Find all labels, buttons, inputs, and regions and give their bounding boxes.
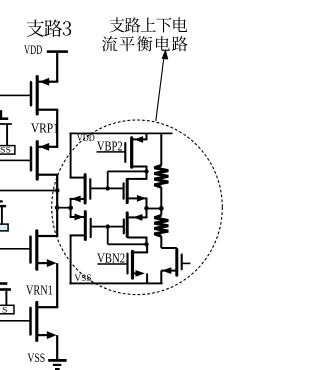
svg-text:VSS: VSS [27, 351, 45, 365]
transistor Q4 source terminal [37, 334, 49, 336]
transistor M4 gate bar [90, 219, 92, 237]
transistor Q1 source arrow (PMOS) [39, 78, 49, 86]
wire Q1 to Q2 [56, 110, 58, 147]
partial symbol 2: terminal bar [0, 205, 6, 207]
wire R2 to M6 [160, 236, 162, 248]
dashed circle (balance circuit highlight) [52, 120, 223, 295]
transistor M3 source arrow [137, 195, 146, 202]
partial symbol 2: arrow stub [0, 200, 3, 202]
transistor M2 source terminal [70, 198, 86, 200]
gate bus wire M4-M7 [91, 226, 124, 228]
wire left at node A [0, 190, 57, 192]
wire M5 drain up to E [146, 244, 148, 252]
transistor M6 source arrow [162, 267, 171, 274]
partial symbol 2: wire down [1, 206, 3, 224]
transistor Q2 gate bar [30, 147, 33, 170]
partial label box SS [0, 146, 15, 155]
transistor Q4 drain terminal [37, 306, 59, 308]
transistor M3 drain terminal [127, 178, 147, 180]
wire M6 source to VSS rail [160, 271, 162, 284]
wire node B to balance box [57, 207, 70, 209]
wire gates-to-E horizontal [108, 243, 147, 245]
transistor M6 gate lead stub [183, 263, 191, 265]
annotation text line2 流平衡电路 [102, 36, 188, 51]
transistor Q2 gate lead wire [0, 160, 31, 162]
wire Q3 to Q4 [56, 263, 58, 307]
box VSS rail [69, 282, 162, 284]
box VDD rail [69, 133, 172, 135]
wire M5 source to VSS rail [146, 273, 148, 283]
wire VDD to Q1 drain [56, 53, 58, 82]
transistor M5 channel bar [131, 252, 134, 279]
resistor junction dot [159, 206, 164, 211]
transistor Q1 source terminal [37, 109, 58, 111]
partial label box S [0, 305, 14, 314]
transistor M6 source terminal [161, 270, 177, 272]
transistor Q1 gate lead wire [0, 95, 31, 97]
node dot C [144, 206, 149, 211]
transistor M2 source arrow [71, 196, 80, 203]
partial symbol: source bar [0, 117, 8, 120]
wire Q2 to node A [56, 175, 58, 236]
partial symbol 3: wire down [5, 291, 7, 306]
transistor M1 gate lead (VBP2 net) [97, 151, 125, 153]
wire Q4 to ground [56, 335, 58, 359]
transistor M5 drain terminal [133, 251, 149, 253]
wire M3-M7 vertical [146, 198, 148, 217]
transistor Q1 gate bar [30, 82, 33, 105]
box left wire segment 3 [70, 235, 72, 285]
svg-text:VSS: VSS [74, 274, 91, 284]
partial symbol: terminal line [0, 123, 12, 125]
transistor M3 source terminal [127, 197, 147, 199]
transistor Q2 source terminal [37, 174, 58, 176]
wire gates-to-E vertical [107, 227, 109, 245]
node C junction dot on box edge [68, 205, 73, 210]
node dot B [144, 169, 148, 173]
transistor M2 drain terminal [70, 177, 86, 179]
node dot D (gate bus) [106, 224, 110, 228]
transistor M2 gate bar [89, 179, 91, 199]
transistor Q1 channel bar [36, 77, 39, 114]
VDD T-bar [47, 50, 68, 53]
wire R1 to junction [160, 187, 162, 208]
transistor M2 channel bar [84, 175, 87, 203]
transistor Q3 channel bar [35, 231, 38, 269]
transistor Q2 drain terminal [37, 146, 58, 148]
transistor M7 gate bar [123, 219, 125, 233]
transistor M1 gate bar [124, 143, 126, 162]
transistor M4 source terminal [70, 216, 86, 218]
wire gates-to-B vertical [107, 171, 109, 188]
transistor M7 drain terminal [127, 237, 147, 239]
wire M1 drain down [146, 167, 148, 179]
transistor Q3 source terminal [37, 262, 49, 264]
box left wire segment 2 [70, 199, 72, 218]
box left wire segment 1 [70, 133, 72, 179]
transistor Q3 gate bar [29, 237, 32, 263]
node dot A (gate bus) [106, 186, 110, 190]
transistor Q3 drain terminal [37, 235, 59, 237]
node dot E [144, 242, 148, 246]
wire C to resistor junction [147, 208, 162, 210]
wire M7 drain down [146, 238, 148, 245]
transistor M7 channel bar [126, 213, 129, 237]
transistor M3 channel bar [126, 179, 129, 202]
wire gates-to-B horizontal [108, 171, 147, 173]
title text 支路3 [27, 19, 72, 36]
transistor M4 channel bar [84, 212, 87, 240]
transistor Q4 source arrow (NMOS) [47, 331, 57, 339]
transistor M7 source arrow [133, 214, 142, 221]
wire VDD rail to R1 [160, 134, 162, 165]
transistor M4 source arrow [75, 214, 84, 221]
transistor M5 gate lead (VBN2 net) [97, 263, 126, 265]
transistor Q1 drain terminal [37, 81, 58, 83]
resistor R2 [154, 215, 168, 236]
transistor Q3 source arrow (NMOS) [47, 259, 57, 267]
transistor Q4 gate lead wire [0, 320, 30, 322]
transistor M6 channel bar [175, 249, 178, 275]
transistor M1 wire to VDD rail [146, 133, 148, 139]
transistor M4 drain terminal [70, 234, 86, 236]
transistor M1 source arrow (PMOS) [134, 136, 143, 143]
transistor Q4 gate bar [29, 308, 32, 335]
annotation text line1 支路上下电 [109, 17, 187, 32]
transistor M6 drain terminal [161, 247, 177, 249]
annotation leader arrow [156, 49, 169, 121]
transistor M5 gate bar [126, 254, 128, 274]
resistor R1 [154, 165, 168, 187]
svg-text:VRN1: VRN1 [26, 282, 53, 297]
transistor Q2 source arrow (PMOS) [39, 143, 49, 151]
partial symbol 2: label box [0, 224, 8, 231]
transistor M5 source arrow (NMOS) [136, 270, 145, 277]
transistor M3 gate bar [123, 183, 125, 199]
ground symbol [48, 359, 66, 370]
transistor Q3 gate lead wire [0, 248, 30, 250]
svg-text:S: S [2, 304, 8, 314]
wire junction to R2 [160, 209, 162, 216]
transistor M1 source terminal [132, 138, 148, 140]
transistor Q4 channel bar [35, 302, 38, 340]
partial symbol 3: terminal bar [0, 282, 7, 285]
transistor M5 source terminal [133, 272, 141, 274]
transistor M7 source terminal [127, 216, 147, 218]
transistor M1 drain terminal [132, 166, 148, 168]
node B junction dot [55, 205, 60, 210]
partial symbol 3: source bar [0, 288, 11, 291]
node A junction dot [55, 188, 60, 193]
transistor Q2 channel bar [36, 142, 39, 179]
partial symbol: channel bar stub [0, 110, 2, 118]
partial symbol: wire down [6, 124, 8, 146]
svg-text:SS: SS [0, 145, 11, 154]
transistor M1 channel bar [130, 138, 133, 167]
svg-text:VDD: VDD [77, 133, 95, 143]
svg-text:VRP1: VRP1 [31, 120, 59, 135]
transistor M6 gate bar [181, 255, 183, 270]
svg-text:VDD: VDD [24, 43, 42, 57]
gate bus wire M2-M3 [91, 188, 124, 190]
